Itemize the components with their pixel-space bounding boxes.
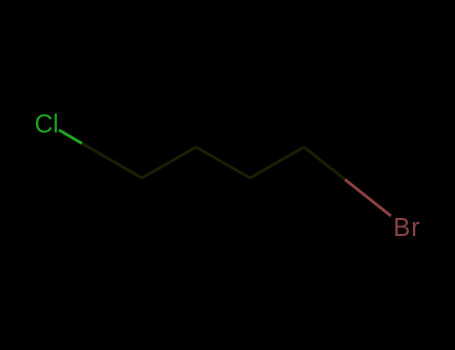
svg-text:Br: Br [393, 214, 420, 242]
bond C4-Br (carbon half) [304, 147, 345, 180]
bond Cl-C1 (carbon half) [82, 143, 142, 178]
wire: bond C1-C2 [142, 147, 196, 178]
bond C4-Br (bromine half, dark red) [345, 180, 391, 217]
wire: bond C3-C4 [250, 147, 304, 178]
wire: bond C2-C3 [196, 147, 250, 178]
svg-text:Cl: Cl [35, 111, 59, 139]
bond Cl-C1 (chlorine half, green) [59, 130, 82, 143]
